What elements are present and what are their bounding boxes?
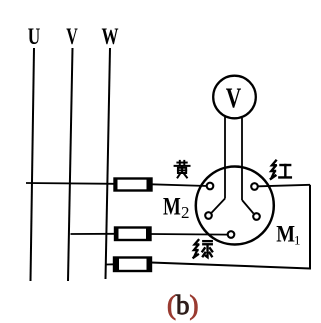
svg-text:V: V — [226, 84, 242, 115]
svg-text:U: U — [28, 24, 41, 49]
svg-text:V: V — [66, 24, 78, 49]
svg-text:1: 1 — [294, 233, 301, 248]
svg-text:W: W — [102, 24, 119, 49]
svg-text:(b): (b) — [167, 290, 199, 320]
svg-text:2: 2 — [181, 203, 190, 222]
svg-text:M: M — [163, 194, 181, 221]
svg-text:M: M — [276, 221, 295, 247]
